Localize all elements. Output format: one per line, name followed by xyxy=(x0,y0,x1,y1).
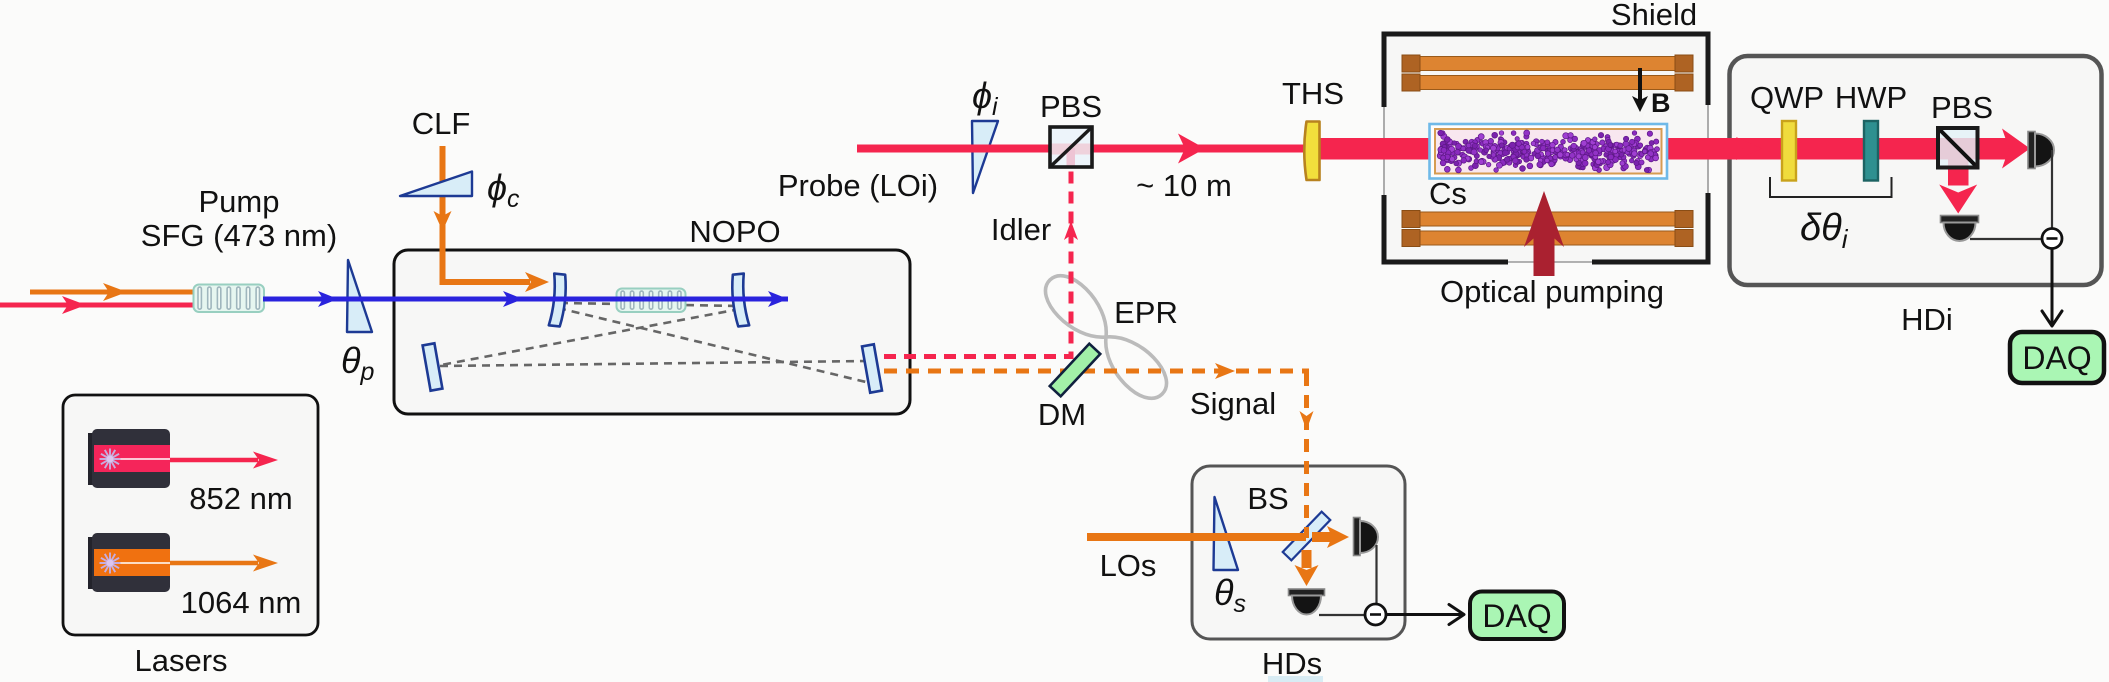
B field arrow xyxy=(1638,68,1642,100)
beam probe expanded xyxy=(1313,138,2012,160)
svg-text:BS: BS xyxy=(1247,481,1288,516)
svg-text:SFG (473 nm): SFG (473 nm) xyxy=(141,218,337,253)
svg-text:HWP: HWP xyxy=(1835,80,1907,115)
svg-text:Pump: Pump xyxy=(199,184,280,219)
prism theta_p xyxy=(347,260,372,332)
prism phi_i xyxy=(972,121,998,193)
dichroic mirror DM xyxy=(1050,344,1101,397)
coil bottom upper bar xyxy=(1402,212,1693,226)
wire subtractor to DAQ i xyxy=(2051,249,2054,325)
svg-text:1064 nm: 1064 nm xyxy=(181,585,302,620)
beam pump 473 nm xyxy=(263,297,788,302)
svg-text:DM: DM xyxy=(1038,397,1086,432)
svg-text:HDs: HDs xyxy=(1262,646,1322,681)
SFG crystal xyxy=(194,285,265,313)
flat mirror M3 xyxy=(423,343,443,390)
svg-text:EPR: EPR xyxy=(1114,295,1178,330)
optical pumping arrow xyxy=(1524,191,1564,276)
beam 852 nm into SFG xyxy=(0,303,196,308)
PBS cube probe xyxy=(1050,127,1092,167)
photodiode D1 HDi xyxy=(2028,132,2035,169)
subtractor node HDs xyxy=(1365,604,1386,625)
svg-text:THS: THS xyxy=(1282,76,1344,111)
beam probe LOi xyxy=(857,145,1312,153)
beam CLF injection xyxy=(443,146,531,282)
photodiode D2 HDi xyxy=(1941,216,1979,223)
curved mirror M2 xyxy=(730,274,749,327)
wire D2s to subtractor xyxy=(1319,614,1365,616)
cavity mode dashed bottom path xyxy=(440,361,868,366)
svg-text:DAQ: DAQ xyxy=(2022,340,2091,376)
svg-text:Signal: Signal xyxy=(1190,386,1276,421)
wire D1s to subtractor xyxy=(1375,545,1377,614)
telescope lens THS xyxy=(1304,122,1319,181)
waveplate QWP xyxy=(1782,121,1796,181)
enclosure NOPO box xyxy=(394,250,910,414)
svg-text:QWP: QWP xyxy=(1750,80,1824,115)
DAQ box s xyxy=(1470,592,1564,640)
beam LOs to D1s xyxy=(1312,532,1332,542)
svg-text:~ 10 m: ~ 10 m xyxy=(1136,168,1232,203)
coil top upper bar xyxy=(1402,57,1693,71)
enclosure magnetic shield box xyxy=(1384,34,1708,262)
cavity mode dashed M1-M2 top path xyxy=(560,303,740,306)
prism phi_c xyxy=(400,172,472,197)
idler dashed beam xyxy=(884,168,1071,357)
svg-text:HDi: HDi xyxy=(1901,302,1953,337)
waveplate HWP xyxy=(1864,121,1878,181)
svg-text:B: B xyxy=(1651,88,1671,118)
coil top lower bar xyxy=(1402,76,1693,90)
bracket delta-theta-i xyxy=(1770,177,1892,197)
svg-text:Idler: Idler xyxy=(991,212,1051,247)
NOPO crystal xyxy=(617,289,686,313)
beamsplitter BS xyxy=(1283,512,1331,561)
beam transmitted to D1 HDi xyxy=(2002,129,2030,169)
beam arrow 1064 nm output xyxy=(170,561,258,566)
cavity mode dashed diagonal M2 to flat mirror xyxy=(441,309,740,365)
Cs atoms xyxy=(1437,130,1659,173)
enclosure Lasers box xyxy=(63,395,318,635)
svg-text:PBS: PBS xyxy=(1040,89,1102,124)
wire subtractor to DAQ s xyxy=(1386,613,1462,616)
beam reflected down shaft HDi xyxy=(1948,149,1969,186)
enclosure HDs box xyxy=(1192,466,1405,639)
svg-text:Lasers: Lasers xyxy=(134,643,227,678)
prism theta_s xyxy=(1214,497,1239,570)
DAQ box i xyxy=(2010,332,2104,383)
svg-text:852 nm: 852 nm xyxy=(189,481,292,516)
PBS cube HDi xyxy=(1938,128,1978,168)
cavity mode dashed diagonal M1 to output mirror xyxy=(558,308,866,382)
beam BS down to D2s xyxy=(1302,550,1312,568)
beam LOs xyxy=(1087,533,1306,541)
EPR lemniscate xyxy=(1036,266,1176,407)
subtractor node HDi xyxy=(2042,229,2062,249)
svg-text:Optical pumping: Optical pumping xyxy=(1440,274,1664,309)
output coupler mirror M4 xyxy=(862,344,882,392)
coil bottom lower bar xyxy=(1402,231,1693,245)
beam 1064 nm into SFG xyxy=(30,290,196,295)
laser diode 1064 nm xyxy=(88,537,95,589)
wire D1 to subtractor xyxy=(2051,150,2053,239)
signal dashed beam vertical xyxy=(1304,373,1309,538)
laser diode 852 nm xyxy=(88,433,95,485)
signal dashed beam horizontal xyxy=(884,369,1309,374)
svg-text:Probe (LOi): Probe (LOi) xyxy=(778,168,938,203)
faint mark bottom xyxy=(1268,676,1323,682)
Cs vapor cell xyxy=(1430,124,1668,179)
wire D2 to subtractor xyxy=(1970,238,2042,240)
svg-text:Shield: Shield xyxy=(1611,0,1697,32)
curved mirror M1 xyxy=(549,274,568,327)
svg-text:CLF: CLF xyxy=(412,106,471,141)
svg-text:Cs: Cs xyxy=(1429,176,1467,211)
svg-text:LOs: LOs xyxy=(1100,548,1157,583)
beam reflected down HDi arrowhead xyxy=(1939,185,1977,214)
svg-text:PBS: PBS xyxy=(1931,90,1993,125)
photodiode D2 HDs xyxy=(1289,589,1325,596)
svg-text:NOPO: NOPO xyxy=(689,214,780,249)
svg-text:DAQ: DAQ xyxy=(1482,598,1551,634)
photodiode D1 HDs xyxy=(1354,518,1361,556)
svg-text:δθi: δθi xyxy=(1800,207,1849,254)
enclosure HDi box xyxy=(1730,56,2102,285)
beam arrow 852 nm output xyxy=(170,458,258,463)
